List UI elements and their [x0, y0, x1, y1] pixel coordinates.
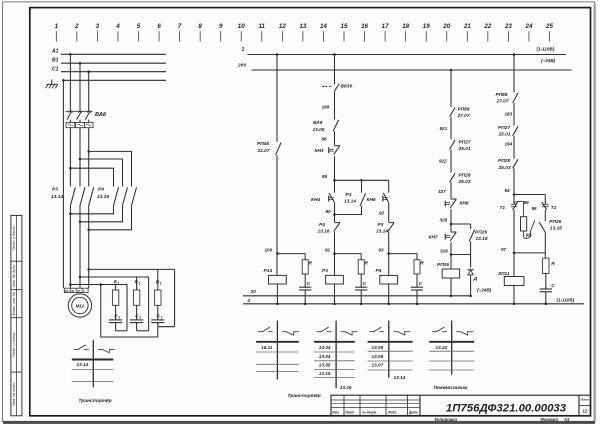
wire РП45 rung upper [276, 53, 279, 142]
wire motor phase W [87, 206, 90, 289]
svg-text:14: 14 [320, 23, 327, 30]
svg-text:921: 921 [440, 126, 448, 131]
node 329 label [440, 249, 448, 254]
svg-text:25.01: 25.01 [498, 132, 511, 138]
wire breaker pole A out [69, 128, 72, 187]
svg-text:92: 92 [379, 211, 385, 216]
svg-text:РП26: РП26 [437, 262, 449, 268]
svg-text:4: 4 [115, 23, 120, 30]
svg-text:12: 12 [582, 408, 587, 413]
wire node329 bar [450, 253, 471, 256]
label С (P4 snubber) [419, 281, 423, 287]
wire branch B to P4 pole2 [80, 159, 123, 187]
contact usage diagram 13.04-13.15 [314, 321, 358, 390]
svg-text:6: 6 [157, 23, 161, 30]
node 94 label [505, 188, 511, 193]
wire neutral/earth line [62, 79, 166, 82]
svg-text:13.16: 13.16 [340, 385, 352, 390]
node 188 label [322, 104, 330, 109]
svg-text:1: 1 [139, 282, 141, 286]
svg-text:329: 329 [440, 249, 448, 254]
wire РП26 to bus20 [450, 278, 452, 296]
wire 110V seg2 [513, 103, 515, 126]
svg-text:В1: В1 [52, 57, 59, 63]
pushbutton КН6 (NO) [383, 193, 389, 202]
svg-text:1: 1 [118, 282, 120, 286]
node 20 label [250, 289, 257, 295]
wire branch Р3 lower [335, 206, 362, 215]
label R1 branch3 [156, 280, 162, 286]
wire phase A1 [61, 53, 166, 56]
wire breaker pole C out [87, 128, 90, 187]
svg-text:(1-110В): (1-110В) [537, 47, 555, 52]
wire merge pole2 [79, 206, 123, 224]
wire main rung seg6 [333, 232, 336, 276]
svg-text:13.06: 13.06 [372, 345, 384, 350]
svg-text:ЗП11: ЗП11 [498, 271, 510, 277]
svg-text:РП28: РП28 [459, 173, 471, 179]
node 921 label [440, 126, 448, 131]
svg-text:Подп. и дата: Подп. и дата [12, 226, 16, 250]
label РП88 27.07 (a) [457, 106, 470, 118]
svg-text:С: С [419, 281, 423, 287]
pushbutton КН6 (NC) [445, 199, 456, 208]
svg-text:Р4: Р4 [376, 268, 382, 274]
wire 110V seg3 [513, 136, 515, 159]
wire phase B drop [79, 63, 81, 111]
wire КН6 branch seg3 [387, 232, 390, 276]
wire bus 200 (~24V) [252, 69, 572, 71]
wire T2 lower [544, 233, 546, 253]
svg-text:20: 20 [442, 23, 450, 30]
wire 24V seg6 [450, 242, 452, 269]
pushbutton КН3 (NC) [329, 146, 340, 155]
resistor R (ЗП11 snubber) [543, 258, 549, 273]
svg-text:(1-110В): (1-110В) [557, 298, 575, 303]
wire 24V seg2 [450, 117, 452, 140]
node 922 label [439, 158, 447, 163]
node 327 label [438, 189, 446, 194]
svg-text:5: 5 [137, 23, 141, 30]
label (1~110В) bottom [557, 298, 575, 303]
wire node91 to snubber [335, 254, 362, 260]
wire РП45 rung lower [276, 155, 279, 275]
contact РП28 25.03 (b) [513, 159, 519, 168]
svg-text:328: 328 [440, 217, 448, 222]
svg-text:99: 99 [524, 200, 530, 205]
label РП27 25.01 (a) [458, 139, 471, 151]
wire phase C1 [61, 70, 166, 73]
label Р14 [264, 268, 273, 274]
svg-text:Взам. инв. №: Взам. инв. № [12, 292, 16, 315]
svg-text:С: С [307, 281, 311, 287]
svg-text:Р4: Р4 [319, 222, 325, 228]
svg-text:(~24В): (~24В) [477, 287, 492, 292]
node A1 label [51, 49, 59, 55]
svg-text:КН3: КН3 [315, 148, 324, 154]
svg-text:13.04: 13.04 [319, 345, 331, 350]
svg-text:РП27: РП27 [459, 139, 471, 145]
label Т2 [551, 205, 557, 211]
svg-text:13.05: 13.05 [313, 127, 325, 133]
node C1 label [52, 66, 59, 72]
label РП28 25.03 (a) [458, 173, 471, 185]
label КН6 [367, 197, 376, 203]
label C1 branch3 [157, 314, 163, 320]
capacitor С (ЗП11 snubber) [540, 289, 552, 304]
label ВА8 13.05 [313, 120, 325, 133]
svg-text:25.03: 25.03 [458, 179, 471, 185]
document margin strip [11, 215, 22, 415]
svg-text:98: 98 [526, 233, 532, 238]
wire 110V rung top [513, 53, 516, 92]
node 90 [326, 209, 336, 216]
capacitor C (P3 snubber) [355, 287, 367, 304]
svg-text:13.18: 13.18 [476, 236, 488, 242]
svg-text:13.06: 13.06 [372, 354, 384, 359]
svg-text:1: 1 [55, 23, 59, 30]
node 200 label [237, 63, 246, 69]
wire to coil ЗП11 [513, 253, 515, 277]
label Т1 [500, 205, 506, 211]
wire 24V seg5 [450, 209, 453, 231]
svg-text:С1: С1 [52, 66, 59, 72]
wire 24V rung top [450, 69, 453, 107]
contactor contacts Р3 13.14 [70, 187, 93, 205]
wire R to C (P4 snubber) [416, 274, 418, 287]
wire merge pole1 [69, 206, 113, 216]
node 95 label [532, 206, 538, 211]
svg-text:1: 1 [160, 282, 162, 286]
svg-text:23: 23 [504, 23, 512, 30]
node 100 label [265, 248, 273, 253]
coil Р4 [380, 275, 398, 284]
wire motor phase V [79, 206, 82, 289]
svg-text:16: 16 [361, 23, 368, 30]
label Д [473, 276, 478, 282]
svg-text:24: 24 [525, 23, 533, 30]
svg-text:№ докум.: № докум. [362, 411, 377, 415]
svg-text:13.05: 13.05 [319, 363, 331, 368]
coil Р14 [269, 275, 287, 284]
svg-text:922: 922 [439, 158, 447, 163]
capacitor C (P4 snubber) [411, 287, 423, 304]
svg-text:7: 7 [178, 23, 182, 30]
label КН7 [429, 235, 438, 241]
wire branch C to P4 pole3 [89, 151, 132, 186]
svg-text:19: 19 [423, 23, 430, 30]
svg-text:1: 1 [139, 316, 141, 320]
svg-text:Подп. и дата: Подп. и дата [12, 333, 16, 357]
resistor R1 capacitor C1 (branch1) [109, 285, 127, 331]
wire Р4 to bus2 [388, 284, 390, 304]
svg-text:27.07: 27.07 [496, 98, 509, 104]
svg-text:ВА8: ВА8 [95, 112, 107, 118]
svg-text:R: R [309, 261, 313, 267]
label Р4 13.16 [97, 187, 109, 201]
svg-text:9: 9 [219, 23, 223, 30]
svg-text:22.07: 22.07 [257, 148, 270, 154]
label РП27 25.01 (b) [498, 125, 511, 138]
wire Р3 to bus2 [334, 284, 336, 304]
pushbutton КН7 (NC) [445, 232, 456, 241]
svg-text:15: 15 [341, 23, 348, 30]
svg-text:88: 88 [322, 136, 328, 141]
svg-text:Т1: Т1 [500, 205, 506, 211]
label C1 branch1 [114, 314, 120, 320]
svg-text:13.14: 13.14 [394, 375, 406, 380]
wire breaker pole B out [79, 128, 82, 187]
contact РП27 25.01 (b) [513, 126, 519, 136]
wire capacitor common return [101, 285, 158, 338]
wire branch A to P4 pole1 [70, 168, 113, 186]
wire phase B1 [61, 62, 166, 65]
svg-text:Р3: Р3 [378, 222, 384, 228]
svg-text:17: 17 [382, 23, 389, 30]
label Р3 13.14 seal-in [344, 192, 356, 204]
svg-text:Лист: Лист [580, 398, 590, 402]
label Р3 13.14 [51, 187, 63, 201]
svg-text:Р4: Р4 [98, 187, 104, 193]
label (~24В) bottom [477, 287, 492, 292]
wire tap phase3 to RC3 [89, 268, 175, 270]
wire phase A drop [69, 54, 71, 111]
node 92 label [379, 211, 385, 216]
label Пневмозажим [434, 385, 468, 391]
wire earth conductor [62, 80, 64, 288]
contact usage diagram 13.06-13.07 [368, 321, 413, 381]
resistor 98 [514, 201, 535, 238]
thermal contact Т2 [542, 202, 549, 210]
svg-text:РП45: РП45 [257, 141, 269, 147]
wire main rung seg5 [334, 202, 336, 222]
svg-text:1П756ДФ321.00.00033: 1П756ДФ321.00.00033 [446, 403, 567, 415]
wire motor phase U [69, 206, 72, 289]
svg-text:КН4: КН4 [311, 197, 320, 203]
label R1 branch1 [114, 280, 120, 286]
label Копировал [435, 417, 458, 422]
node 89 label [322, 174, 328, 179]
node 183 label [505, 112, 513, 117]
svg-text:РП27: РП27 [498, 125, 510, 131]
svg-text:М12: М12 [76, 304, 85, 309]
wire branch bar node89 [333, 179, 389, 182]
svg-text:Р14: Р14 [264, 268, 273, 274]
node 2 label [247, 298, 251, 304]
svg-text:183: 183 [505, 112, 513, 117]
svg-text:КЛ: КЛ [65, 289, 69, 293]
coil ЗП11 [504, 277, 524, 286]
wire main rung seg4 [334, 156, 336, 193]
contact usage diagram 16.11 [256, 321, 299, 380]
svg-text:13.14: 13.14 [376, 229, 388, 235]
label Р4 coil [376, 268, 382, 274]
wire tap phase1 to RC1 [70, 283, 127, 286]
node 328 label [440, 217, 448, 222]
wire tap phase2 to RC2 [80, 276, 149, 278]
node 97 label [501, 247, 507, 252]
capacitor C (P14 snubber) [299, 287, 311, 304]
svg-text:25: 25 [545, 23, 553, 30]
label Формат А3 [541, 417, 571, 422]
contact Р3 13.14 (seal-in) [360, 193, 366, 206]
wire T1-T2 branch bar [514, 194, 545, 196]
svg-text:94: 94 [505, 188, 511, 193]
svg-text:13.07: 13.07 [372, 363, 384, 368]
wire branch bar node328 [451, 223, 471, 225]
svg-text:10: 10 [238, 23, 245, 30]
wire Р14 to bus2 [276, 284, 278, 304]
svg-text:Подп.: Подп. [388, 411, 397, 415]
svg-text:R: R [420, 261, 424, 267]
svg-text:13: 13 [299, 23, 306, 30]
label R1 branch2 [135, 280, 141, 286]
label КН3 [315, 148, 324, 154]
wire 24V seg4 [450, 182, 452, 198]
svg-text:13.16: 13.16 [97, 194, 109, 200]
svg-text:13.14: 13.14 [77, 362, 89, 367]
title block [331, 395, 591, 416]
resistor R (P14 snubber) [302, 260, 308, 274]
label ВК30 [341, 84, 353, 90]
svg-text:С: С [363, 281, 367, 287]
svg-text:Д: Д [473, 276, 478, 282]
svg-text:Дата: Дата [408, 411, 418, 415]
svg-text:8: 8 [198, 23, 202, 30]
wire T2 seg2 [544, 210, 546, 221]
contact РП26 13.18 (b) [539, 222, 546, 233]
svg-text:100: 100 [265, 248, 273, 253]
svg-text:А3: А3 [563, 417, 570, 422]
svg-text:R: R [551, 261, 555, 267]
svg-text:21: 21 [463, 23, 471, 30]
wire snubber drop [544, 253, 546, 258]
svg-text:КН6: КН6 [367, 197, 376, 203]
contact РП45 22.07 [276, 142, 282, 155]
coil Р3 [326, 275, 344, 284]
thermal contact Т1 [511, 202, 518, 210]
svg-text:Изм.: Изм. [332, 411, 339, 415]
wire node100 to snubber [277, 254, 305, 260]
diode Д [468, 270, 474, 275]
wire ЗП11 to bus2 [513, 286, 515, 304]
node B1 label [52, 57, 59, 63]
wire 110V seg4 [513, 168, 516, 204]
svg-text:А1: А1 [51, 49, 59, 55]
label РП26 coil [437, 262, 449, 268]
svg-text:13.16: 13.16 [318, 229, 330, 235]
label РП88 27.07 (b) [496, 92, 509, 105]
contact usage diagram 13.22 Пневмозажим [429, 321, 474, 375]
wire main rung top [333, 53, 336, 84]
svg-text:ВК30: ВК30 [341, 84, 353, 90]
wire РП26 13.18 branch lower [470, 241, 472, 254]
svg-text:13.18: 13.18 [550, 225, 562, 231]
svg-text:95: 95 [532, 206, 538, 211]
node 99 label [524, 200, 530, 205]
svg-text:184: 184 [505, 142, 513, 147]
label КН6 (NC) [460, 200, 469, 206]
svg-text:С: С [551, 283, 555, 289]
wire merge pole3 [87, 206, 131, 232]
wire diode branch lower [469, 275, 472, 297]
svg-text:3: 3 [96, 23, 100, 30]
label R (P4 snubber) [420, 261, 424, 267]
circuit breaker ВА8 [66, 110, 94, 128]
svg-text:Пневмозажим: Пневмозажим [434, 385, 468, 391]
wire 24V seg3 [450, 150, 452, 173]
svg-text:90: 90 [326, 209, 332, 214]
label ВА8 [95, 112, 107, 118]
node 184 label [505, 142, 513, 147]
label КН4 [311, 197, 320, 203]
contactor contacts Р4 13.16 [114, 187, 137, 205]
svg-text:КН7: КН7 [429, 235, 438, 241]
svg-text:13.04: 13.04 [319, 354, 331, 359]
wire branch Р3 upper [361, 180, 363, 192]
contact РП88 27.07 (a) [450, 108, 456, 117]
label R (P14 snubber) [309, 261, 313, 267]
svg-text:Инв. № подл.: Инв. № подл. [12, 382, 16, 406]
label РП45 22.07 [257, 141, 270, 154]
svg-text:1: 1 [161, 316, 163, 320]
svg-text:1: 1 [242, 47, 245, 53]
contact Р3 13.14 (interlock NC) [388, 223, 394, 232]
svg-text:Р3: Р3 [346, 192, 352, 198]
svg-text:89: 89 [322, 174, 328, 179]
svg-text:Формат: Формат [541, 417, 559, 422]
motor М12 [68, 294, 91, 317]
label С (ЗП11 snubber) [551, 283, 555, 289]
terminal block КЛ [64, 288, 88, 293]
svg-text:93: 93 [379, 248, 385, 253]
svg-text:РП26: РП26 [475, 230, 487, 236]
wire main rung seg2 [334, 91, 336, 119]
resistor R1 capacitor C1 (branch2) [130, 277, 149, 331]
label Р3 coil [322, 268, 328, 274]
wire R to C (P14 snubber) [304, 274, 306, 287]
svg-text:188: 188 [322, 104, 330, 109]
svg-text:Транспортёр: Транспортёр [79, 398, 112, 404]
svg-text:13.15: 13.15 [319, 371, 331, 376]
contact РП26 13.18 (seal-in) [469, 230, 475, 242]
wire T1 lower [513, 210, 515, 253]
svg-text:91: 91 [325, 248, 331, 253]
wire main rung seg3 [334, 131, 336, 145]
wire diode branch upper [470, 255, 472, 268]
wire РП26 13.18 branch upper [470, 224, 472, 229]
resistor R (P3 snubber) [358, 260, 364, 274]
wire КН6 branch seg2 [388, 202, 390, 222]
contact usage diagram Транспортёр (left) [72, 340, 115, 387]
node 91 label [325, 248, 331, 253]
contact РП88 27.07 (b) [513, 93, 519, 103]
svg-text:Инв. № дубл.: Инв. № дубл. [12, 264, 16, 287]
svg-text:2: 2 [74, 23, 79, 30]
node 1 label [242, 47, 245, 53]
zone ruler (columns 1-25) [55, 23, 554, 42]
wire node93 to snubber [389, 254, 417, 260]
svg-text:200: 200 [237, 63, 246, 69]
label Транспортёр (center) [288, 393, 321, 399]
svg-text:18: 18 [402, 23, 409, 30]
svg-text:(~24В): (~24В) [541, 58, 556, 63]
label ЗП11 [498, 271, 510, 277]
wire R to C (ЗП11 snubber) [545, 274, 547, 290]
pushbutton КН4 (NO) [329, 193, 335, 202]
label (~24В) top [541, 58, 556, 63]
label R (P3 snubber) [365, 261, 369, 267]
